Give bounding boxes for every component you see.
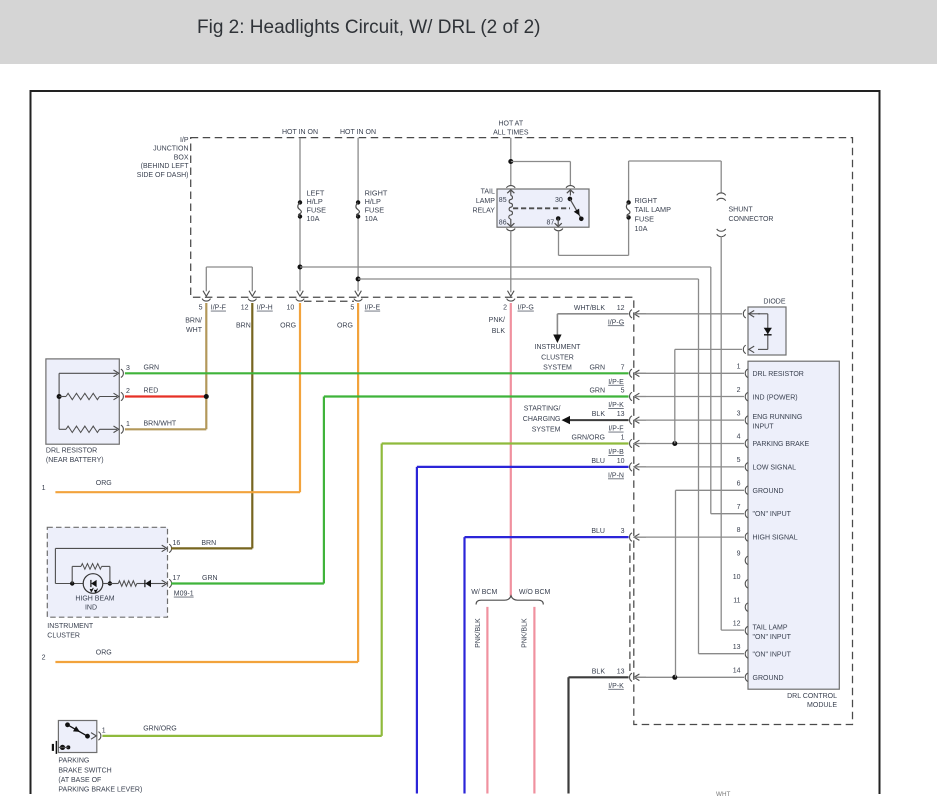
fuse left H/LP FUSE 10A xyxy=(298,200,302,204)
wire y=161 to shunt connector xyxy=(629,160,722,162)
wire relay pin 86 to connector I/P-G xyxy=(510,231,512,292)
node cluster junction left xyxy=(70,581,74,585)
svg-text:HIGH SIGNAL: HIGH SIGNAL xyxy=(753,535,798,542)
svg-text:16: 16 xyxy=(173,540,181,547)
svg-text:I/P-N: I/P-N xyxy=(608,473,624,480)
node junction left fuse output xyxy=(298,265,303,270)
diode top pin connector xyxy=(743,310,745,318)
svg-text:W/O BCM: W/O BCM xyxy=(519,589,551,596)
svg-text:INPUT: INPUT xyxy=(753,423,775,430)
svg-text:1: 1 xyxy=(621,435,625,442)
component INSTRUMENT CLUSTER dashed box xyxy=(47,527,167,617)
switch blade parking brake xyxy=(65,722,70,727)
svg-text:GROUND: GROUND xyxy=(753,488,784,495)
svg-text:30: 30 xyxy=(555,197,563,204)
resistor R-bottom xyxy=(59,428,66,430)
svg-text:7: 7 xyxy=(621,364,625,371)
wire PNK/BLK drop from I/P-G xyxy=(510,303,512,596)
wire BRN cluster pin 16 to I/P-H drop xyxy=(171,547,252,549)
svg-text:BOX: BOX xyxy=(174,154,189,161)
diode symbol xyxy=(764,328,772,334)
svg-text:I/P-G: I/P-G xyxy=(608,319,624,326)
svg-text:CLUSTER: CLUSTER xyxy=(541,354,574,361)
svg-text:JUNCTION: JUNCTION xyxy=(153,146,188,153)
svg-text:W/ BCM: W/ BCM xyxy=(471,589,497,596)
svg-text:RIGHT: RIGHT xyxy=(635,196,658,205)
svg-text:HOT IN ON: HOT IN ON xyxy=(340,129,376,136)
brace W/ BCM vs W/O BCM xyxy=(476,596,543,605)
svg-text:1: 1 xyxy=(737,364,741,371)
svg-text:WHT: WHT xyxy=(716,791,730,798)
relay dashed actuator line xyxy=(513,207,570,209)
svg-text:10A: 10A xyxy=(365,214,378,223)
svg-text:10: 10 xyxy=(287,305,295,312)
svg-text:BLU: BLU xyxy=(591,528,605,535)
wire y=267 from left fuse to DRL module area xyxy=(300,266,711,268)
resistor R-top xyxy=(59,396,66,398)
wire BLU low signal xyxy=(416,467,418,794)
wire connector to module pin 4 xyxy=(634,443,744,445)
svg-text:BLK: BLK xyxy=(492,328,506,335)
node junction relay feed split xyxy=(508,159,513,164)
svg-text:STARTING/: STARTING/ xyxy=(524,406,561,413)
svg-text:SHUNT: SHUNT xyxy=(729,207,754,214)
wire y=279 from right fuse to DRL module area xyxy=(358,278,698,280)
relay pin 85 terminal arrow xyxy=(510,191,512,196)
svg-text:HOT AT: HOT AT xyxy=(498,121,523,128)
wire ORG to off-page 2 xyxy=(55,661,358,663)
svg-text:12: 12 xyxy=(241,305,249,312)
svg-text:DRL CONTROL: DRL CONTROL xyxy=(787,693,837,700)
svg-text:I/P-E: I/P-E xyxy=(608,379,624,386)
pin 9 of DRL control module xyxy=(745,556,747,564)
svg-text:2: 2 xyxy=(42,655,46,662)
relay switch blade (open) xyxy=(570,199,581,219)
wire left fuse feed to module pin 7 xyxy=(710,267,712,514)
diode internal wiring xyxy=(758,313,768,315)
svg-text:BLK: BLK xyxy=(592,668,606,675)
relay pin 87 contact and arrow xyxy=(556,216,561,221)
svg-text:10A: 10A xyxy=(307,214,320,223)
svg-text:LOW SIGNAL: LOW SIGNAL xyxy=(753,464,797,471)
in-line connector WHT/BLK 12 I/P-G at y=313.8 xyxy=(630,310,632,318)
relay coil xyxy=(509,196,513,220)
svg-text:CHARGING: CHARGING xyxy=(523,416,561,423)
svg-text:TAIL LAMP: TAIL LAMP xyxy=(635,205,672,214)
svg-text:10: 10 xyxy=(733,574,741,581)
wire BRN drop from I/P-H xyxy=(251,303,253,548)
svg-text:PNK/BLK: PNK/BLK xyxy=(522,618,529,648)
wire RED from DRL resistor pin 2 xyxy=(125,395,206,397)
wire GRN/ORG from parking brake switch to module pin 4 xyxy=(102,735,381,737)
svg-text:HIGH BEAM: HIGH BEAM xyxy=(75,595,114,602)
svg-text:SIDE OF DASH): SIDE OF DASH) xyxy=(137,172,189,179)
connector pin 12 I/P-H xyxy=(249,291,256,297)
fuse RIGHT TAIL LAMP FUSE 10A xyxy=(626,200,630,204)
svg-text:13: 13 xyxy=(617,411,625,418)
pin 17 of instrument cluster xyxy=(162,580,167,587)
in-line connector GRN 5 I/P-K at y=396.5 xyxy=(630,392,632,400)
svg-text:LAMP: LAMP xyxy=(476,198,495,205)
svg-text:"ON" INPUT: "ON" INPUT xyxy=(753,652,792,659)
pin 4 of DRL control module xyxy=(745,439,747,447)
pin 3 of DRL resistor xyxy=(114,370,119,377)
svg-text:GRN/ORG: GRN/ORG xyxy=(143,726,176,733)
svg-text:FUSE: FUSE xyxy=(635,215,655,224)
pin 11 of DRL control module xyxy=(745,603,747,611)
svg-text:5: 5 xyxy=(350,305,354,312)
wire ORG drop from I/P-E xyxy=(357,303,359,662)
ground lead inside switch xyxy=(60,745,65,750)
component DRL RESISTOR box xyxy=(46,359,119,444)
svg-text:(NEAR BATTERY): (NEAR BATTERY) xyxy=(46,457,104,464)
svg-text:ALL TIMES: ALL TIMES xyxy=(493,130,529,137)
svg-text:BRAKE SWITCH: BRAKE SWITCH xyxy=(58,767,111,774)
wire BLK engine running input xyxy=(570,419,629,421)
svg-text:HOT IN ON: HOT IN ON xyxy=(282,129,318,136)
I/P junction box dashed outline (L-shape shared with DRL module enclosure) xyxy=(191,138,853,725)
svg-text:1: 1 xyxy=(102,728,106,735)
dashed connector bridge between pin 10 and pin 5 xyxy=(304,300,354,302)
svg-text:1: 1 xyxy=(126,421,130,428)
svg-text:ORG: ORG xyxy=(280,323,296,330)
svg-text:PARKING BRAKE LEVER): PARKING BRAKE LEVER) xyxy=(58,787,142,794)
svg-text:2: 2 xyxy=(737,387,741,394)
svg-text:WHT: WHT xyxy=(186,327,203,334)
pin 2 of DRL resistor xyxy=(114,393,119,400)
svg-text:GRN: GRN xyxy=(589,388,605,395)
wire cluster internal from pin 16 xyxy=(55,547,165,549)
pin 1 of DRL control module xyxy=(745,369,747,377)
relay pin 30 arc xyxy=(566,186,575,188)
wire connector to module pin 14 xyxy=(634,676,744,678)
wire left H/LP fuse feed vertical xyxy=(299,138,301,203)
in-line connector BLK 13 I/P-F at y=420.1 xyxy=(630,416,632,424)
wire PNK/BLK without BCM xyxy=(533,607,535,794)
relay pin 86 terminal arrow xyxy=(510,219,512,225)
pin 2 of DRL control module xyxy=(745,392,747,400)
svg-text:5: 5 xyxy=(621,388,625,395)
pin 7 of DRL control module xyxy=(745,509,747,517)
svg-text:"ON" INPUT: "ON" INPUT xyxy=(753,634,792,641)
dashed connector segment between BLU-3 and BLK-13 in-line connectors xyxy=(629,544,631,672)
wire connector to module pin 2 xyxy=(634,396,744,398)
pin 8 of DRL control module xyxy=(745,533,747,541)
svg-text:11: 11 xyxy=(733,597,740,604)
wire to pin 3 xyxy=(59,372,117,374)
svg-text:I/P-B: I/P-B xyxy=(608,449,624,456)
svg-text:85: 85 xyxy=(499,197,507,204)
arrow to instrument cluster system xyxy=(553,335,561,344)
svg-text:ORG: ORG xyxy=(96,650,112,657)
svg-text:DIODE: DIODE xyxy=(763,298,786,305)
wire BLK ground drop xyxy=(567,677,569,793)
svg-text:I/P-K: I/P-K xyxy=(608,402,624,409)
svg-text:WHT/BLK: WHT/BLK xyxy=(574,305,605,312)
relay pin 85 arc xyxy=(506,186,515,188)
wire shunt connector to module pin 12 xyxy=(720,236,722,630)
wire PNK/BLK with BCM xyxy=(486,607,488,794)
connector pin 5 I/P-F xyxy=(203,291,210,297)
pin 1 of parking brake switch xyxy=(91,733,96,740)
wire ORG drop from pin 10 xyxy=(299,303,301,492)
connector pin 2 I/P-G xyxy=(508,291,515,297)
pin 6 of DRL control module xyxy=(745,486,747,494)
wire relay coil feed from HOT AT ALL TIMES xyxy=(510,138,512,185)
component DRL CONTROL MODULE box xyxy=(748,361,839,689)
node cluster junction right xyxy=(108,581,112,585)
svg-text:2: 2 xyxy=(503,305,507,312)
svg-text:3: 3 xyxy=(621,528,625,535)
svg-text:I/P: I/P xyxy=(180,137,189,144)
svg-text:I/P-H: I/P-H xyxy=(257,305,273,312)
svg-text:GRN: GRN xyxy=(202,575,218,582)
in-line connector GRN/ORG 1 I/P-B at y=443.5 xyxy=(630,439,632,447)
diagram frame border xyxy=(31,91,880,794)
svg-text:IND: IND xyxy=(85,605,97,612)
connector pin 5 I/P-E xyxy=(355,291,362,297)
relay pin 30 contact xyxy=(569,191,571,196)
svg-text:DRL RESISTOR: DRL RESISTOR xyxy=(753,371,804,378)
svg-text:BRN/: BRN/ xyxy=(185,317,202,324)
pin 5 of DRL control module xyxy=(745,463,747,471)
svg-text:DRL RESISTOR: DRL RESISTOR xyxy=(46,448,97,455)
arrow to starting/charging system xyxy=(562,416,571,424)
node DRL resistor internal junction xyxy=(57,394,62,399)
svg-text:BRN: BRN xyxy=(236,323,251,330)
svg-text:ORG: ORG xyxy=(337,323,353,330)
wire tail lamp fuse feed xyxy=(628,161,630,202)
wire GRN cluster pin 17 riser xyxy=(171,582,324,584)
relay K1 TAIL LAMP RELAY box xyxy=(497,189,589,227)
wire connector to diode top pin xyxy=(634,313,742,315)
shunt connector arcs xyxy=(717,193,726,195)
svg-text:CLUSTER: CLUSTER xyxy=(47,633,80,640)
pin 13 of DRL control module xyxy=(745,650,747,658)
svg-text:I/P-K: I/P-K xyxy=(608,683,624,690)
relay pin 86 arc xyxy=(506,229,515,231)
wire ORG to off-page 1 xyxy=(55,491,300,493)
svg-text:5: 5 xyxy=(199,305,203,312)
svg-text:SYSTEM: SYSTEM xyxy=(543,364,572,371)
svg-text:SYSTEM: SYSTEM xyxy=(532,426,561,433)
svg-text:87: 87 xyxy=(547,220,555,227)
svg-text:"ON" INPUT: "ON" INPUT xyxy=(753,511,792,518)
svg-text:I/P-G: I/P-G xyxy=(518,305,534,312)
pin 14 of DRL control module xyxy=(745,673,747,681)
svg-text:GRN: GRN xyxy=(144,364,160,371)
pin 12 of DRL control module xyxy=(745,626,747,634)
wire relay pin 87 to right tail lamp fuse xyxy=(558,231,560,255)
node junction RED to BRN/WHT xyxy=(204,394,209,399)
wire connector to module pin 8 xyxy=(634,536,744,538)
svg-text:2: 2 xyxy=(126,388,130,395)
svg-text:GRN/ORG: GRN/ORG xyxy=(572,435,605,442)
svg-text:6: 6 xyxy=(737,480,741,487)
svg-text:ENG RUNNING: ENG RUNNING xyxy=(753,414,803,421)
wire diode bottom to pin 4 junction xyxy=(675,348,742,350)
wire DRL resistor internal vertical xyxy=(58,373,60,429)
wire branch to relay pin 30 xyxy=(511,161,571,163)
svg-text:3: 3 xyxy=(737,410,741,417)
svg-text:(AT BASE OF: (AT BASE OF xyxy=(58,777,101,784)
resistor bulb bypass xyxy=(71,566,73,583)
svg-text:12: 12 xyxy=(617,305,625,312)
svg-text:I/P-F: I/P-F xyxy=(608,426,623,433)
svg-text:GROUND: GROUND xyxy=(753,675,784,682)
in-line connector BLU 10 I/P-N at y=466.9 xyxy=(630,463,632,471)
wire WHT/BLK to instrument cluster system xyxy=(557,313,628,315)
wire right H/LP fuse feed vertical xyxy=(357,138,359,203)
pin 10 of DRL control module xyxy=(745,580,747,588)
svg-text:PNK/BLK: PNK/BLK xyxy=(475,618,482,648)
wire right fuse feed to module pin 13 xyxy=(698,279,700,654)
component PARKING BRAKE SWITCH box xyxy=(58,721,96,753)
ground chassis symbol xyxy=(55,741,57,754)
svg-text:9: 9 xyxy=(737,551,741,558)
wire connector to module pin 1 xyxy=(634,372,744,374)
svg-text:TAIL: TAIL xyxy=(481,189,495,196)
svg-text:MODULE: MODULE xyxy=(807,702,837,709)
svg-text:RELAY: RELAY xyxy=(472,207,495,214)
pin 16 of instrument cluster xyxy=(162,545,167,552)
svg-text:BLU: BLU xyxy=(591,458,605,465)
svg-text:I/P-F: I/P-F xyxy=(211,305,226,312)
wire shunt connector top lead xyxy=(720,161,722,193)
svg-text:7: 7 xyxy=(737,504,741,511)
svg-text:I/P-E: I/P-E xyxy=(365,305,381,312)
wire U-bridge joining I/P-F and I/P-H pins xyxy=(205,267,207,291)
in-line connector BLK 13 I/P-K at y=677.3 xyxy=(630,673,632,681)
svg-text:13: 13 xyxy=(617,668,625,675)
svg-text:1: 1 xyxy=(42,485,46,492)
svg-text:13: 13 xyxy=(733,644,741,651)
pin 1 of DRL resistor xyxy=(114,426,119,433)
wire connector to module pin 5 xyxy=(634,466,744,468)
wire pin 6 ground to bus xyxy=(676,489,745,491)
svg-text:IND (POWER): IND (POWER) xyxy=(753,394,798,401)
svg-text:10: 10 xyxy=(617,458,625,465)
svg-text:INSTRUMENT: INSTRUMENT xyxy=(47,623,94,630)
connector pin 10 xyxy=(297,291,304,297)
in-line connector BLU 3 at y=537.1 xyxy=(630,533,632,541)
svg-text:PARKING: PARKING xyxy=(58,758,89,765)
svg-text:BLK: BLK xyxy=(592,411,606,418)
wire BRN/WHT drop from I/P-F xyxy=(205,303,207,429)
component DIODE box xyxy=(748,307,786,355)
wire GRN to module pin 2 xyxy=(324,395,629,397)
svg-text:4: 4 xyxy=(737,434,741,441)
svg-text:GRN: GRN xyxy=(589,364,605,371)
svg-text:14: 14 xyxy=(733,668,741,675)
wire BLU high signal xyxy=(463,537,465,793)
svg-text:(BEHIND LEFT: (BEHIND LEFT xyxy=(141,163,190,170)
node junction diode to parking brake xyxy=(672,441,677,446)
svg-text:ORG: ORG xyxy=(96,480,112,487)
in-line connector GRN 7 I/P-E at y=373.3 xyxy=(630,369,632,377)
svg-text:RED: RED xyxy=(144,388,159,395)
svg-text:12: 12 xyxy=(733,621,741,628)
fuse right H/LP FUSE 10A xyxy=(356,200,360,204)
relay pin 87 arc xyxy=(554,229,563,231)
lamp HIGH BEAM IND bulb xyxy=(83,574,103,594)
wire bulb to resistor xyxy=(103,583,119,585)
resistor cluster series xyxy=(118,581,137,587)
diode bottom pin connector xyxy=(743,345,745,353)
svg-text:5: 5 xyxy=(737,457,741,464)
svg-text:8: 8 xyxy=(737,527,741,534)
wire BRN/WHT to DRL resistor pin 1 xyxy=(125,428,206,430)
svg-text:M09-1: M09-1 xyxy=(174,591,194,598)
svg-text:86: 86 xyxy=(499,220,507,227)
node junction right fuse output xyxy=(356,277,361,282)
wire GRN from DRL resistor pin 3 to module pin 1 xyxy=(125,372,629,374)
svg-text:PARKING BRAKE: PARKING BRAKE xyxy=(753,441,810,448)
svg-text:BRN/WHT: BRN/WHT xyxy=(144,420,177,427)
svg-text:TAIL LAMP: TAIL LAMP xyxy=(753,624,788,631)
svg-text:PNK/: PNK/ xyxy=(489,317,505,324)
svg-text:17: 17 xyxy=(173,575,181,582)
pin 3 of DRL control module xyxy=(745,416,747,424)
svg-text:CONNECTOR: CONNECTOR xyxy=(729,216,774,223)
svg-text:3: 3 xyxy=(126,365,130,372)
diode cluster (cathode left) xyxy=(137,583,145,585)
svg-text:INSTRUMENT: INSTRUMENT xyxy=(535,344,582,351)
svg-text:10A: 10A xyxy=(635,224,648,233)
svg-text:BRN: BRN xyxy=(201,540,216,547)
wire connector to module pin 3 xyxy=(634,419,744,421)
node junction ground bus xyxy=(672,675,677,680)
